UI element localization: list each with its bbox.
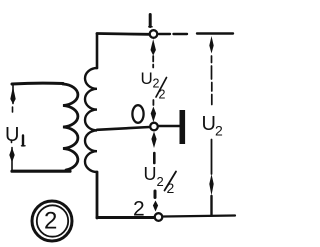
label 0 bbox=[132, 105, 143, 123]
wire node 0 to terminal bar bbox=[159, 125, 180, 127]
svg-text:U: U bbox=[202, 113, 216, 135]
wire right of node 1 bbox=[159, 33, 187, 35]
figure number circle outer bbox=[32, 201, 72, 241]
svg-text:2: 2 bbox=[44, 208, 57, 235]
figure number circle inner bbox=[37, 205, 68, 236]
wire right of node 2 to dimension end bbox=[164, 216, 236, 217]
dimension tick top right bbox=[197, 32, 233, 34]
arrow U2/2 lower (head at node 0) bbox=[151, 132, 156, 149]
wire bottom from coil to node 2 bbox=[97, 216, 154, 219]
arrow U2/2 upper (head at node 0) bbox=[152, 100, 154, 105]
inductor L2 (secondary winding, 5 bumps bulging left) bbox=[85, 68, 97, 172]
U1 voltage arrow lower stub bbox=[11, 140, 14, 170]
wire center tap to node 0 bbox=[97, 127, 150, 130]
svg-text:2: 2 bbox=[167, 180, 175, 196]
inductor L2 vertical lead bottom bbox=[96, 172, 99, 218]
node 2 terminal circle bbox=[155, 213, 163, 221]
node 1 terminal circle bbox=[150, 30, 158, 38]
svg-text:U: U bbox=[144, 164, 157, 184]
U2 dimension arrow up bbox=[209, 36, 213, 54]
U1 voltage arrow upper stub bbox=[12, 84, 15, 112]
arrow U2/2 lower (head at node 2) bbox=[154, 191, 157, 198]
svg-text:2: 2 bbox=[159, 88, 166, 102]
U2 dimension arrow down bbox=[211, 140, 213, 175]
wire top from coil to node 1 bbox=[97, 32, 149, 36]
svg-text:2: 2 bbox=[215, 123, 223, 139]
inductor L2 vertical lead top bbox=[96, 34, 99, 69]
svg-text:U: U bbox=[141, 69, 153, 88]
svg-text:U: U bbox=[5, 124, 19, 146]
wire top of primary loop bbox=[12, 82, 63, 86]
svg-text:2: 2 bbox=[157, 174, 164, 189]
arrow U2/2 upper (head at node 1) bbox=[151, 39, 156, 56]
inductor L1 (primary winding, 4 bumps bulging right) bbox=[63, 84, 78, 170]
label 1 bbox=[149, 15, 152, 27]
node 0 terminal circle bbox=[150, 123, 158, 131]
terminal bar (thick T-bar) bbox=[180, 110, 186, 144]
wire bottom of primary loop bbox=[12, 170, 70, 173]
